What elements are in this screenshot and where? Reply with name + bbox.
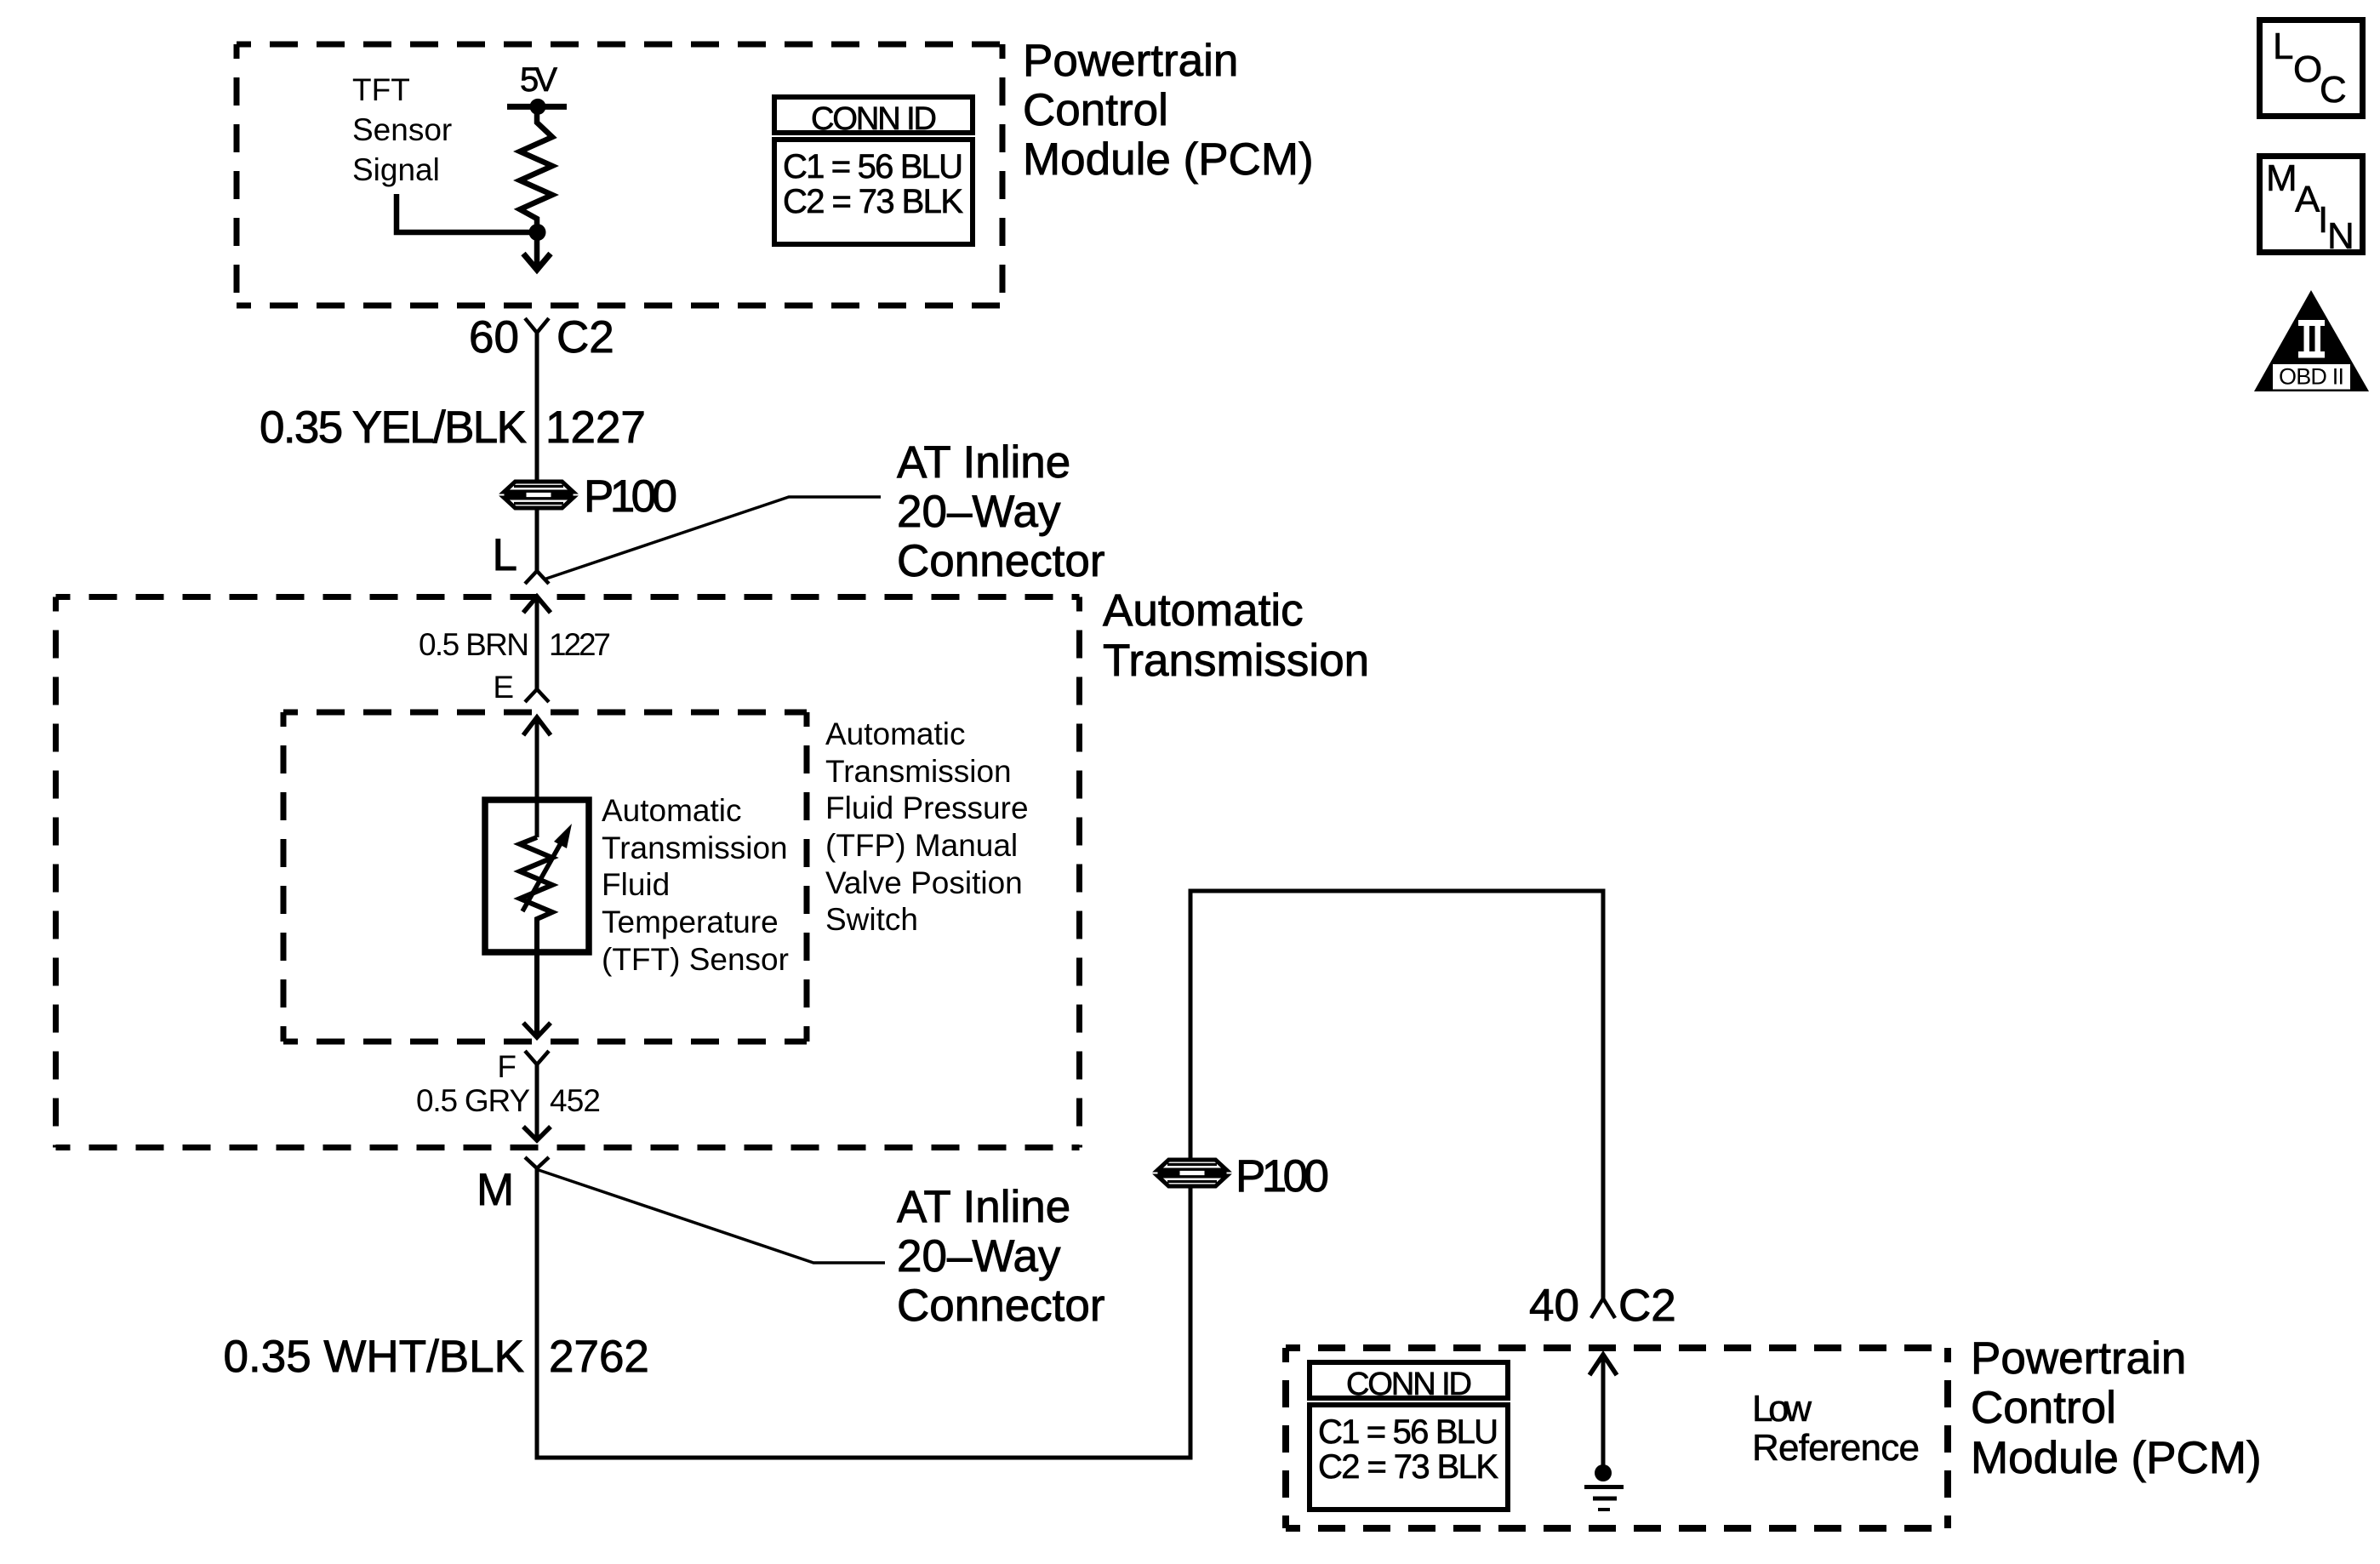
svg-text:452: 452 xyxy=(550,1083,601,1118)
svg-text:C1 = 56 BLU: C1 = 56 BLU xyxy=(783,148,963,186)
svg-text:0.35 WHT/BLK: 0.35 WHT/BLK xyxy=(224,1332,524,1382)
label Low Reference xyxy=(1752,1388,1920,1469)
svg-text:C: C xyxy=(2320,69,2347,111)
svg-text:1227: 1227 xyxy=(545,402,646,453)
svg-text:0.5 GRY: 0.5 GRY xyxy=(416,1083,530,1118)
svg-text:A: A xyxy=(2295,179,2320,220)
svg-text:AT Inline: AT Inline xyxy=(897,437,1070,488)
svg-text:CONN ID: CONN ID xyxy=(811,101,937,137)
svg-text:Fluid: Fluid xyxy=(602,867,670,902)
svg-text:Sensor: Sensor xyxy=(352,112,452,147)
svg-text:20–Way: 20–Way xyxy=(897,1231,1061,1281)
svg-text:C1 = 56 BLU: C1 = 56 BLU xyxy=(1318,1413,1498,1451)
svg-text:Transmission: Transmission xyxy=(825,754,1012,789)
svg-text:Connector: Connector xyxy=(897,536,1105,586)
svg-text:M: M xyxy=(477,1165,514,1215)
svg-text:M: M xyxy=(2266,157,2297,199)
LOC legend box xyxy=(2260,20,2363,117)
svg-text:Module (PCM): Module (PCM) xyxy=(1971,1433,2262,1483)
wire TFT sensor signal tap xyxy=(397,194,537,232)
svg-text:Powertrain: Powertrain xyxy=(1023,36,1238,86)
svg-text:Switch: Switch xyxy=(825,902,918,937)
connector M arrow out of AT box xyxy=(523,1127,551,1140)
wire E to TFT sensor xyxy=(535,717,539,837)
svg-text:C2 = 73 BLK: C2 = 73 BLK xyxy=(1318,1448,1498,1486)
svg-text:40: 40 xyxy=(1529,1281,1579,1331)
svg-text:AT Inline: AT Inline xyxy=(897,1182,1070,1232)
junction dot ground xyxy=(1595,1464,1612,1481)
node 40 C2 female flare xyxy=(1591,1299,1615,1318)
svg-text:OBD II: OBD II xyxy=(2279,364,2344,390)
node L female flare xyxy=(525,571,549,584)
5V supply rail xyxy=(507,104,567,110)
svg-text:Powertrain: Powertrain xyxy=(1971,1333,2186,1384)
node 60 C2 female flare xyxy=(525,318,549,333)
wire F to M xyxy=(535,1065,539,1140)
wire M to PCM return path xyxy=(537,891,1603,1458)
connector L male arrow into AT box xyxy=(523,596,551,613)
node F female flare xyxy=(525,1051,549,1065)
svg-text:TFT: TFT xyxy=(352,72,410,107)
junction dot bottom of resistor xyxy=(529,224,546,241)
svg-text:Control: Control xyxy=(1971,1383,2116,1433)
svg-text:60: 60 xyxy=(469,312,519,362)
label Automatic Transmission xyxy=(1103,585,1369,686)
svg-text:O: O xyxy=(2293,49,2322,90)
svg-text:20–Way: 20–Way xyxy=(897,487,1061,537)
TFT sensor box xyxy=(485,800,589,952)
svg-text:N: N xyxy=(2327,215,2354,257)
label TFT Sensor Signal xyxy=(352,72,452,187)
inline connector P100 (bottom) xyxy=(1158,1160,1227,1186)
label Powertrain Control Module (PCM) top xyxy=(1023,36,1314,185)
label TFP switch xyxy=(825,716,1029,937)
label AT Inline 20-Way Connector (top) xyxy=(897,437,1105,586)
leader to AT Inline connector note (top) xyxy=(544,497,881,579)
wire L to E xyxy=(535,596,539,689)
svg-text:C2: C2 xyxy=(1618,1281,1676,1331)
label TFT sensor xyxy=(602,793,789,977)
svg-text:Temperature: Temperature xyxy=(602,905,779,939)
svg-text:E: E xyxy=(493,670,514,705)
svg-text:(TFP) Manual: (TFP) Manual xyxy=(825,828,1018,863)
svg-text:C2 = 73 BLK: C2 = 73 BLK xyxy=(783,183,963,220)
CONN ID table 2 xyxy=(1310,1362,1508,1510)
arrow to 60 C2 output xyxy=(534,232,540,269)
svg-text:Reference: Reference xyxy=(1752,1427,1920,1469)
svg-text:P100: P100 xyxy=(1236,1151,1329,1202)
svg-text:Control: Control xyxy=(1023,85,1168,135)
svg-text:Automatic: Automatic xyxy=(825,716,966,751)
wire low reference to ground xyxy=(1601,1355,1606,1473)
svg-text:2762: 2762 xyxy=(549,1332,649,1382)
svg-text:P100: P100 xyxy=(584,471,677,522)
svg-text:(TFT) Sensor: (TFT) Sensor xyxy=(602,942,789,977)
svg-text:Transmission: Transmission xyxy=(1103,636,1369,686)
svg-text:0.35 YEL/BLK: 0.35 YEL/BLK xyxy=(260,402,527,453)
MAIN legend box xyxy=(2260,157,2363,258)
label Powertrain Control Module (PCM) bottom xyxy=(1971,1333,2262,1483)
PCM top dashed box xyxy=(237,44,1002,305)
svg-text:L: L xyxy=(2273,26,2293,67)
ground symbol xyxy=(1584,1487,1624,1510)
OBD II legend triangle xyxy=(2254,290,2369,391)
inline connector P100 (top) xyxy=(505,482,574,508)
TFP switch dashed box xyxy=(283,712,807,1042)
TFT thermistor zigzag xyxy=(520,837,552,1037)
svg-text:1227: 1227 xyxy=(549,627,611,662)
svg-text:Fluid Pressure: Fluid Pressure xyxy=(825,791,1029,825)
svg-text:Connector: Connector xyxy=(897,1281,1105,1331)
node E female flare xyxy=(525,689,549,702)
Automatic Transmission dashed box xyxy=(56,597,1080,1148)
svg-text:F: F xyxy=(497,1049,517,1084)
resistor R (TFT bias) xyxy=(520,106,552,232)
label AT Inline 20-Way Connector (bottom) xyxy=(897,1182,1105,1331)
svg-text:Automatic: Automatic xyxy=(1103,585,1304,636)
TFT variable arrow xyxy=(522,836,565,911)
svg-text:CONN ID: CONN ID xyxy=(1346,1367,1472,1402)
svg-text:Valve Position: Valve Position xyxy=(825,865,1023,900)
PCM bottom dashed box xyxy=(1286,1348,1948,1528)
node M female flare xyxy=(525,1157,549,1168)
svg-text:C2: C2 xyxy=(556,312,614,362)
svg-text:L: L xyxy=(493,530,517,580)
leader to AT Inline connector note (bottom) xyxy=(539,1170,885,1263)
connector 40 C2 male arrow into PCM xyxy=(1590,1355,1617,1375)
svg-text:0.5 BRN: 0.5 BRN xyxy=(419,627,529,662)
svg-text:Module (PCM): Module (PCM) xyxy=(1023,134,1314,185)
junction dot top of resistor xyxy=(530,99,546,115)
connector E male arrow into TFP box xyxy=(523,717,551,735)
svg-text:5V: 5V xyxy=(520,61,557,99)
connector F arrow out of TFP box xyxy=(523,1023,551,1037)
svg-text:Transmission: Transmission xyxy=(602,831,788,865)
svg-text:Low: Low xyxy=(1752,1388,1812,1430)
svg-text:Automatic: Automatic xyxy=(602,793,742,828)
CONN ID table 1 xyxy=(774,97,973,244)
svg-text:Signal: Signal xyxy=(352,152,440,187)
wire 60 C2 to P100 xyxy=(535,333,539,571)
